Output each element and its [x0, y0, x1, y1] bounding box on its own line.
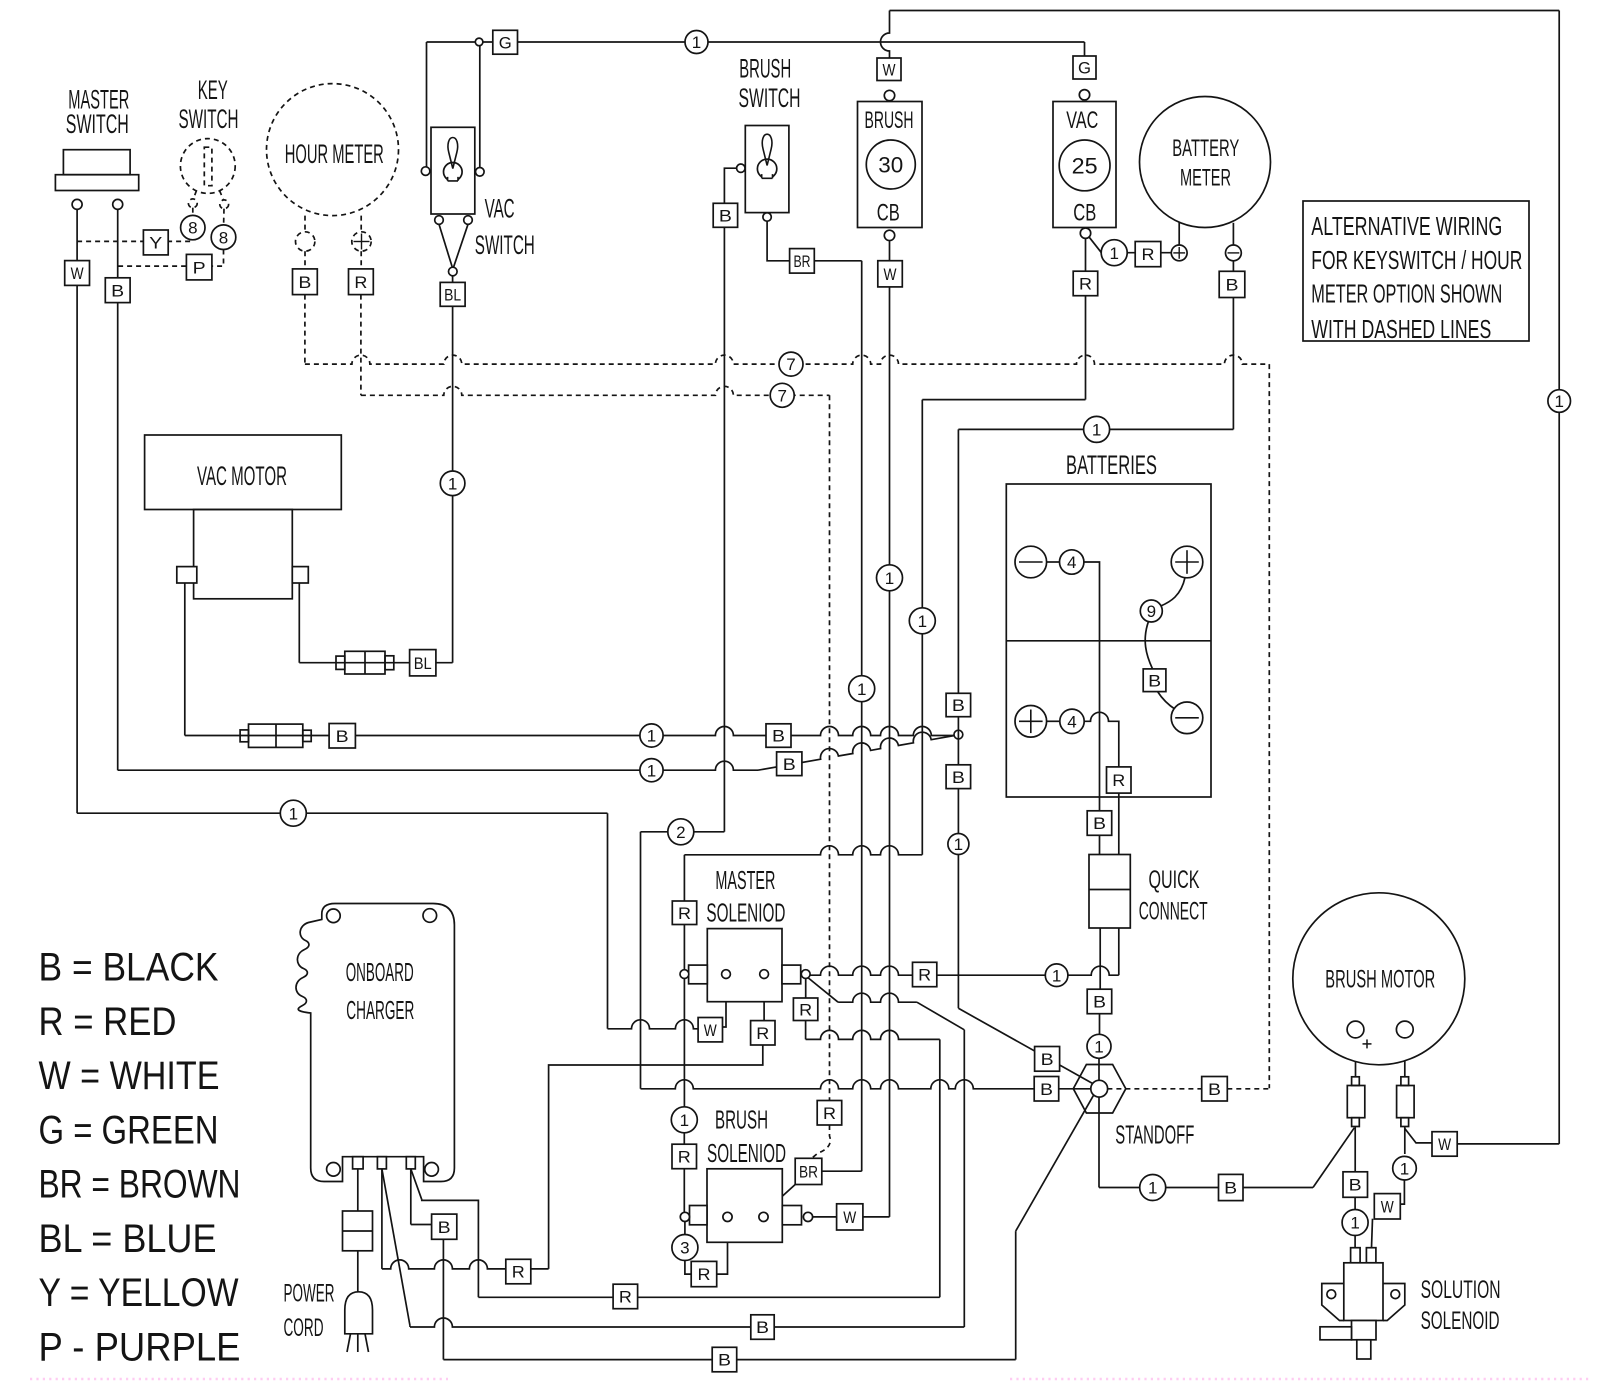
batteries box [1006, 484, 1211, 797]
wire brush switch top contact to B box [724, 168, 736, 203]
label R box hour meter [349, 269, 374, 295]
wire battery jumper 9: 9 circle to B box [1145, 621, 1152, 669]
wire W box to solution solenoid right tab [1372, 1219, 1373, 1248]
svg-text:SOLENIOD: SOLENIOD [707, 1138, 786, 1168]
VAC switch terminal common [449, 267, 458, 276]
wire standoff bottom down [1098, 1097, 1100, 1187]
label R box master solenoid coil [672, 901, 696, 925]
svg-text:B: B [719, 206, 732, 225]
terminal circle 9 jumper [1140, 600, 1162, 622]
svg-text:1: 1 [680, 1111, 689, 1130]
text power cord label [284, 1280, 335, 1343]
brush CB rating circle 30 [866, 140, 915, 189]
wire B net: short row [838, 993, 917, 1002]
wire B net: quick connect down left column [1099, 928, 1101, 989]
svg-text:FOR KEYSWITCH / HOUR: FOR KEYSWITCH / HOUR [1311, 245, 1522, 275]
wire 1 net: horizontal to node [185, 727, 954, 736]
wire R net2: tab3 diagonal [411, 1169, 422, 1200]
wire W net: brush CB W vertical [889, 287, 891, 1217]
svg-text:R: R [354, 273, 367, 292]
wire W net: right edge vertical down [1558, 11, 1560, 390]
wire 1 net: VAC motor left tab down [184, 583, 186, 736]
connector on BL wire [336, 651, 394, 674]
wire battery meter plus lead [1178, 222, 1180, 245]
text legend P [39, 1325, 241, 1369]
net tag 1 on solenoid R row [1045, 964, 1068, 987]
svg-text:METER: METER [1180, 165, 1231, 192]
dashed wire hour meter B lead to box [304, 251, 306, 269]
wire master switch B lead to row [117, 303, 119, 771]
wire B net: circle 1 down [957, 855, 959, 1009]
svg-text:1: 1 [692, 33, 701, 52]
svg-text:B: B [1041, 1050, 1054, 1069]
svg-text:BR: BR [794, 252, 811, 271]
text master solenoid label [706, 865, 785, 928]
svg-text:CHARGER: CHARGER [346, 995, 414, 1025]
brush switch toggle base [757, 159, 776, 180]
svg-text:W: W [883, 60, 896, 79]
wire 2 branch: brush switch B box down [723, 227, 725, 832]
wire charger tab1 down to fuse [357, 1169, 359, 1211]
svg-text:7: 7 [777, 386, 786, 405]
brush switch body [745, 126, 789, 213]
dashed wire P: key switch 8 down and left to B lead [118, 250, 224, 267]
label R box battery positive [1107, 767, 1132, 793]
dashed wire hour meter R lead below box [360, 295, 362, 396]
charger fuse [343, 1211, 373, 1251]
svg-text:CB: CB [1073, 200, 1096, 227]
wire battery jumper 9: B box to minus [1158, 692, 1176, 710]
wire R net: left along y400 [922, 399, 1085, 401]
svg-text:G: G [1078, 59, 1091, 78]
dashed bus 7b vertical down [829, 395, 831, 1100]
svg-text:R: R [799, 1000, 812, 1019]
wire R box to brush solenoid left contact [683, 1169, 685, 1212]
brush solenoid right tab [782, 1206, 801, 1225]
label W box brush motor [1432, 1132, 1457, 1157]
brush motor terminal minus [1396, 1021, 1413, 1038]
wire standoff row to brush motor [1099, 1187, 1313, 1189]
plus marker on hour meter right terminal [354, 234, 370, 250]
net tag 1 standoff bottom row [1140, 1175, 1166, 1201]
wire 3 chain: R box to inner-left contact [717, 1222, 728, 1274]
svg-text:25: 25 [1072, 153, 1098, 178]
master switch terminal right [113, 199, 123, 209]
text legend BR [39, 1163, 241, 1207]
svg-text:POWER: POWER [284, 1280, 335, 1308]
wire brush motor right terminal down [1404, 1038, 1406, 1077]
label W box brush CB top [877, 58, 901, 81]
wire G net: VAC switch left terminal up [426, 42, 428, 167]
solution solenoid bottom stub [1357, 1340, 1371, 1359]
svg-text:W: W [843, 1208, 856, 1227]
wire BL net: horizontal to vac motor connector [299, 662, 452, 664]
label B box bottom row [712, 1347, 737, 1372]
svg-text:R: R [756, 1024, 769, 1043]
wire B net: batteries B box to quick connect [1099, 835, 1101, 854]
wire battery1 4 to down lead [1084, 562, 1100, 811]
onboard charger body [296, 904, 454, 1182]
dashed terminal circle hour meter right [352, 232, 371, 251]
svg-text:W: W [884, 265, 897, 284]
battery meter circle [1140, 97, 1271, 228]
text vac motor label [197, 461, 287, 491]
master solenoid right tab [782, 965, 801, 984]
svg-text:G: G [499, 33, 512, 52]
label B box wire 1 [766, 724, 791, 748]
net tag 2 on brush switch B wire [668, 819, 694, 845]
net tag 1 on B net x958 [948, 834, 969, 855]
decor dotted bottom line [30, 1378, 1592, 1381]
text legend B [39, 946, 219, 990]
VAC motor label box [145, 435, 342, 510]
svg-text:METER OPTION SHOWN: METER OPTION SHOWN [1311, 279, 1502, 309]
wire brush solenoid outer-right contact to W box [813, 1216, 837, 1218]
wire R net2: tab3 row top [422, 1200, 479, 1298]
wire R net2: solenoid contact stub to R box [805, 979, 807, 999]
label R box 3-chain [691, 1261, 717, 1286]
svg-text:B: B [1226, 276, 1239, 295]
svg-text:G = GREEN: G = GREEN [39, 1108, 219, 1152]
label B box master switch lead [105, 278, 130, 303]
solution solenoid left wing [1322, 1284, 1344, 1321]
solution solenoid base [1352, 1321, 1377, 1340]
text brush solenoid label [707, 1105, 786, 1168]
solution solenoid right wing hole [1391, 1290, 1400, 1299]
wire VAC switch triangle left [439, 224, 452, 267]
svg-text:BATTERIES: BATTERIES [1066, 450, 1157, 480]
wire W net: brush CB to W box [889, 241, 891, 261]
wire battery jumper 9: plus to 9 circle [1161, 578, 1185, 606]
battery1 plus terminal [1171, 546, 1203, 578]
terminal circle 4 battery2 [1060, 709, 1084, 733]
dashed wire Y: master switch W to key switch 8 [77, 240, 190, 242]
svg-text:8: 8 [188, 219, 197, 238]
wire R net2: row to x939 [806, 1030, 940, 1039]
wire B net: corner tab2 diag [409, 1326, 411, 1327]
wire W net: master switch row to solenoid [77, 812, 607, 814]
wire brush motor left lead B box to circle 1 [1354, 1197, 1356, 1210]
dashed wire key switch left contact to 8 circle [192, 208, 194, 216]
svg-text:R: R [678, 904, 691, 923]
net tag 1 on meter B row [1084, 416, 1110, 442]
label BL box vac motor wire [410, 650, 436, 676]
brush solenoid contact outer-right [803, 1212, 812, 1221]
svg-text:BR: BR [799, 1163, 818, 1182]
svg-text:R: R [1079, 275, 1092, 294]
power cord plug [345, 1292, 373, 1352]
brush solenoid left tab [690, 1206, 708, 1225]
VAC switch body [431, 127, 475, 214]
svg-text:SOLENIOD: SOLENIOD [706, 897, 785, 927]
label G box vac switch [493, 30, 518, 54]
wire R net2: down x939 [939, 1039, 941, 1297]
wire brush motor left terminal down [1355, 1038, 1357, 1077]
label R box vac CB bottom [1073, 271, 1098, 296]
dashed wire key switch left contact [194, 191, 197, 199]
wire R net: solenoid R row [810, 966, 912, 975]
wire R net: quick connect down right column [1118, 928, 1120, 975]
brush solenoid contact inner-left [723, 1212, 732, 1221]
wire W net: down at x607 [607, 813, 609, 1029]
wire W net: brush CB W box up with hop over G line [881, 11, 890, 59]
svg-text:BRUSH: BRUSH [865, 107, 914, 134]
terminal circle 8 left [181, 215, 205, 239]
standoff center circle [1091, 1080, 1108, 1097]
svg-text:Y = YELLOW: Y = YELLOW [39, 1271, 239, 1315]
svg-text:1: 1 [647, 727, 656, 746]
wire R net: battery R box to quick connect [1118, 793, 1120, 855]
note box alternative wiring [1303, 201, 1529, 341]
wire BL net: BL box down to circle 1 [452, 306, 454, 471]
text legend W [39, 1054, 220, 1098]
wire B net: charger tab2 diagonal [382, 1169, 410, 1326]
svg-text:B: B [111, 281, 124, 300]
net tag 1 on G line [685, 31, 708, 54]
wire battery meter minus lead [1232, 223, 1234, 245]
net tag 7 dashed bus b [770, 383, 794, 407]
net tag 1 on BR wire [849, 676, 875, 702]
charger terminal tab3 [406, 1157, 415, 1169]
dashed bus 7b horizontal [361, 386, 830, 395]
text quick connect label [1139, 866, 1208, 926]
terminal circle vac CB top [1079, 90, 1089, 100]
label P box keyswitch wire [186, 254, 212, 280]
svg-text:P - PURPLE: P - PURPLE [39, 1325, 241, 1369]
brush CB body [858, 102, 923, 228]
svg-text:1: 1 [918, 612, 927, 631]
label Y box keyswitch wire [143, 230, 168, 255]
label W box master switch lead [65, 261, 90, 286]
wire R net: R row right of box [937, 966, 1119, 975]
wire BR net: BR box to vertical [814, 260, 861, 262]
VAC switch terminal bottom-left [435, 216, 444, 225]
svg-text:B: B [952, 768, 965, 787]
text legend BL [39, 1217, 217, 1261]
dashed wire standoff to B box [1107, 1088, 1201, 1090]
svg-text:1: 1 [954, 835, 963, 854]
wire B net standoff row [641, 1080, 1035, 1089]
svg-text:B: B [772, 727, 785, 746]
terminal circle brush CB top [884, 90, 894, 100]
svg-text:P: P [193, 258, 206, 277]
svg-text:B: B [1093, 993, 1106, 1012]
wire R net: charger tab2 down [381, 1169, 383, 1269]
brush switch terminal bottom [763, 213, 771, 221]
net tag 1 on wire 1 [640, 724, 663, 747]
dashed wire key switch right contact [220, 191, 224, 200]
wire B net3: B box down [442, 1239, 444, 1359]
key switch key slot [204, 147, 212, 186]
wire W net: top horizontal [890, 10, 1560, 12]
wire brush motor right lead circle1 to W box [1400, 1180, 1404, 1204]
text brush CB label [865, 107, 914, 227]
text vac CB label [1066, 107, 1098, 227]
solution solenoid body [1344, 1263, 1383, 1321]
svg-text:VAC MOTOR: VAC MOTOR [197, 461, 287, 491]
text master switch label [66, 85, 130, 140]
wire W net: W box to inner-left contact [723, 979, 727, 1028]
svg-text:CB: CB [877, 200, 900, 227]
dashed bus 7a horizontal [305, 355, 1269, 364]
svg-text:KEY: KEY [198, 75, 228, 105]
svg-text:1: 1 [289, 804, 298, 823]
svg-text:1: 1 [857, 680, 866, 699]
VAC switch terminal left [421, 167, 430, 176]
solution solenoid side stub [1320, 1327, 1352, 1340]
svg-text:1: 1 [1109, 244, 1118, 263]
label B box below node [946, 765, 971, 789]
text key switch label [179, 75, 239, 134]
wire W net: to master solenoid W box [608, 1020, 699, 1029]
svg-text:BL: BL [444, 285, 461, 304]
dashed terminal circle hour meter left [296, 232, 315, 251]
wire VAC CB bottom to circle 1 [1089, 237, 1101, 252]
wire circle1 to R box brush solenoid [683, 1132, 685, 1144]
master solenoid contact inner-right [760, 970, 769, 979]
svg-text:2: 2 [676, 823, 685, 842]
wire 3 chain: left contact down [684, 1222, 686, 1235]
vac CB body [1053, 102, 1116, 228]
node junction of wire 1 and wire 2 [954, 730, 963, 739]
svg-text:W: W [71, 264, 84, 283]
label B box charger [432, 1214, 457, 1239]
svg-text:B: B [1224, 1179, 1237, 1198]
wire 2 net: slanted to node [758, 732, 955, 770]
svg-text:B = BLACK: B = BLACK [39, 946, 219, 990]
svg-text:8: 8 [219, 228, 228, 247]
battery2 plus terminal [1015, 706, 1047, 738]
brush solenoid contact outer-left [680, 1212, 689, 1221]
dashed contact circle left of key switch [188, 199, 197, 208]
wire BR net: BR box diagonal to solenoid contact [765, 1185, 796, 1213]
svg-text:ONBOARD: ONBOARD [346, 957, 414, 987]
battery1 minus terminal [1015, 546, 1047, 578]
label B box standoff lower [1034, 1077, 1059, 1102]
svg-text:BRUSH: BRUSH [715, 1105, 768, 1135]
wire diagonal up to brush motor minus lead [1313, 1128, 1354, 1188]
wire B net: B box to circle 1 standoff [1099, 1014, 1101, 1035]
net tag 3 brush solenoid chain [672, 1235, 698, 1261]
text batteries label [1066, 450, 1157, 480]
wire G net: down into VAC CB G box [1084, 42, 1086, 56]
net tag 7 dashed bus a [779, 352, 803, 376]
wire B net: diagonal to standoff [958, 1008, 1092, 1083]
wire B net: down x958 [957, 429, 959, 693]
label B box charger B row [751, 1315, 774, 1340]
svg-text:VAC: VAC [1066, 107, 1098, 134]
wire R net: R box to outer-left contact [683, 925, 685, 970]
wire 2 branch: via circle 2 to left [641, 831, 725, 833]
svg-text:B: B [756, 1318, 769, 1337]
terminal circle 8 right [211, 225, 236, 250]
charger screw top-right [423, 909, 437, 923]
wire brush motor right lead to W branch [1404, 1127, 1406, 1155]
label R box master solenoid inner [751, 1021, 775, 1045]
terminal circle 4 battery1 [1060, 550, 1084, 574]
wire R net2: R box down and right [805, 1021, 807, 1040]
wire BR net: into brush solenoid BR box [822, 1170, 862, 1172]
master solenoid left tab [689, 965, 708, 984]
label B box battery jumper [1143, 669, 1166, 692]
label R box meter plus wire [1135, 242, 1161, 267]
net tag 1 on master W row [280, 800, 306, 826]
svg-text:R = RED: R = RED [39, 1000, 177, 1044]
label W box master solenoid [698, 1018, 722, 1042]
label W box brush CB bottom [878, 261, 903, 287]
svg-text:B: B [298, 273, 311, 292]
svg-text:B: B [718, 1351, 731, 1370]
label B box standoff bottom row [1219, 1174, 1244, 1200]
brush solenoid contact inner-right [759, 1212, 768, 1221]
wire B net3: tab3 down [410, 1169, 412, 1225]
net tag 1 on right edge [1548, 390, 1571, 413]
svg-text:BR = BROWN: BR = BROWN [39, 1163, 241, 1207]
label B box brush switch [713, 203, 737, 227]
svg-text:1: 1 [1350, 1214, 1359, 1233]
dashed wire B box to bus 7a [1227, 1088, 1269, 1090]
dashed contact circle right of key switch [220, 200, 229, 209]
text vac switch label [475, 193, 535, 260]
brush motor plus marker [1363, 1039, 1372, 1048]
svg-text:BL: BL [414, 654, 432, 673]
svg-text:CONNECT: CONNECT [1139, 897, 1208, 925]
VAC motor right tab [292, 567, 308, 583]
charger screw bottom-left [327, 1163, 341, 1177]
wire master switch W lead down [76, 209, 78, 260]
brush switch toggle handle [762, 134, 772, 165]
wire W branch to W box [1405, 1129, 1432, 1143]
svg-text:CORD: CORD [284, 1314, 324, 1342]
label R box master solenoid outer [793, 998, 817, 1021]
svg-text:W: W [704, 1021, 717, 1040]
label R box tab3 row [613, 1284, 638, 1309]
dashed wire hour meter B lead [304, 216, 306, 232]
svg-text:HOUR METER: HOUR METER [285, 139, 384, 169]
VAC switch terminal bottom-right [464, 216, 473, 225]
master solenoid contact outer-right [801, 970, 810, 979]
svg-text:R: R [1112, 771, 1125, 790]
wire 2 net: horizontal [118, 761, 758, 770]
net tag 1 on meter plus row [1101, 240, 1127, 266]
svg-text:1: 1 [647, 761, 656, 780]
wire B net: left via circle 1 [958, 428, 1233, 430]
charger screw top-left [327, 909, 341, 923]
label R box brush solenoid coil [672, 1144, 697, 1169]
svg-text:B: B [336, 727, 349, 746]
svg-text:1: 1 [1052, 966, 1061, 985]
svg-text:B: B [952, 696, 965, 715]
svg-text:4: 4 [1067, 553, 1076, 572]
terminal circle brush CB bottom [884, 230, 894, 240]
wire battery1 minus to 4 [1047, 561, 1060, 563]
text legend Y [39, 1271, 239, 1315]
svg-text:4: 4 [1067, 712, 1076, 731]
net tag 1 on vac R wire [909, 608, 935, 634]
label B box meter minus wire [1219, 271, 1245, 297]
wire W net: to brush solenoid W box [863, 1216, 890, 1218]
svg-text:W = WHITE: W = WHITE [39, 1054, 220, 1098]
wire W net: right edge vertical below circle 1 [1558, 412, 1560, 1144]
svg-text:SWITCH: SWITCH [179, 104, 239, 134]
master switch body base [55, 175, 138, 191]
net tag 1 on BL wire [440, 471, 465, 496]
dashed wire hour meter R lead [360, 216, 362, 232]
wire R net: down x922 [921, 400, 923, 855]
master switch terminal left [72, 199, 82, 209]
VAC motor body [194, 510, 293, 599]
label W box brush solenoid [837, 1204, 863, 1230]
